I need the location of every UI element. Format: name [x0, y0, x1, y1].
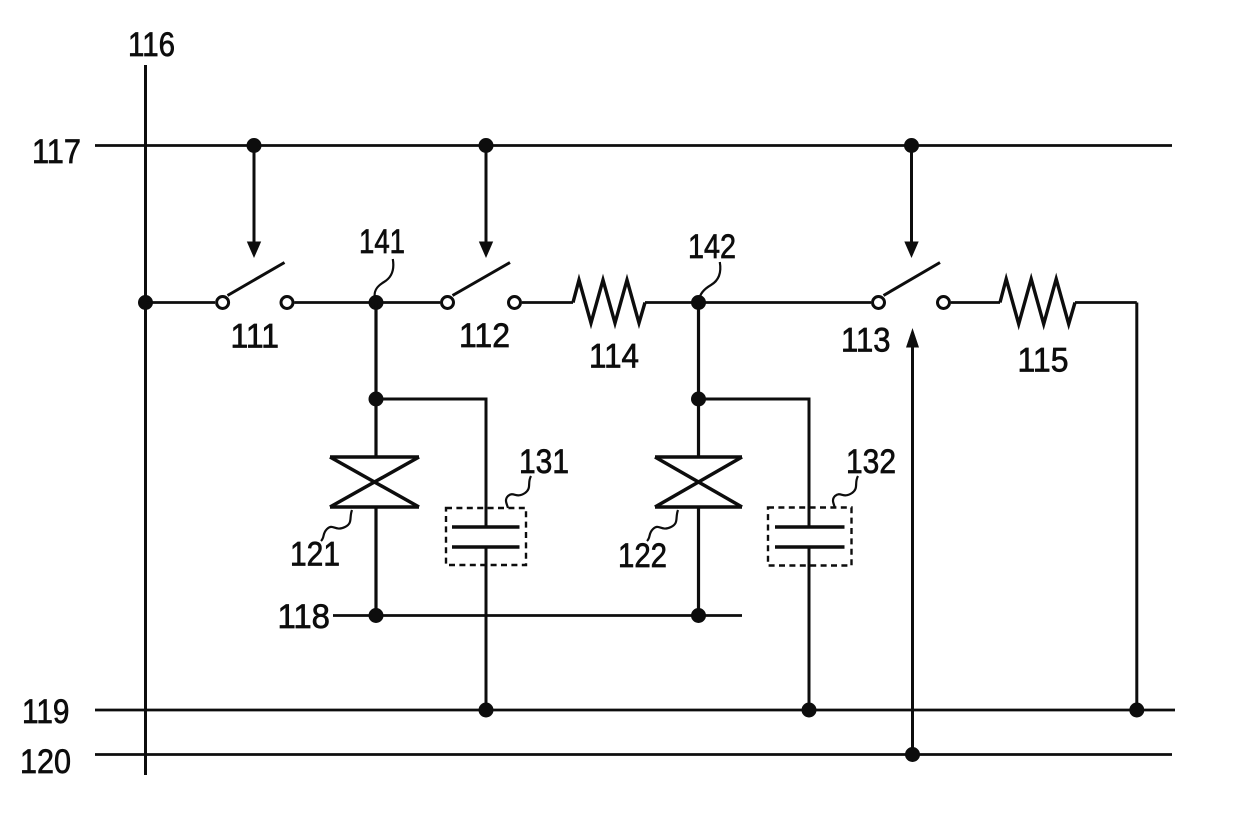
svg-text:121: 121	[290, 536, 340, 574]
junction dot 120 at up-arrow line	[905, 747, 920, 762]
svg-text:114: 114	[589, 338, 639, 376]
stem element 121 down to line 118	[374, 507, 377, 616]
node 142 leader line	[699, 262, 720, 300]
wire 116 vertical line	[144, 65, 147, 775]
junction dot 119 at right vertical	[1129, 703, 1144, 718]
wire 117 horizontal line	[95, 144, 1172, 147]
svg-text:120: 120	[20, 743, 71, 781]
capacitor 131 lower wire to line 119	[485, 547, 488, 710]
svg-text:141: 141	[359, 223, 405, 261]
switch 111	[217, 263, 293, 309]
wire 119 horizontal line	[95, 709, 1175, 712]
svg-text:116: 116	[128, 26, 175, 64]
svg-text:142: 142	[688, 228, 736, 266]
wire resistor 115 to right corner	[1075, 301, 1137, 304]
stem node 142 down to element 122	[697, 303, 700, 458]
switch 112	[442, 263, 521, 309]
node 141 leader line	[375, 259, 394, 297]
junction dot 119 at capacitor 132	[802, 703, 817, 718]
capacitor 131	[452, 527, 520, 547]
capacitor 132 dashed box	[768, 508, 852, 566]
svg-text:117: 117	[32, 133, 81, 171]
arrow from 117 down to switch 111	[247, 146, 261, 259]
junction dot 118 right	[691, 608, 706, 623]
element 122 squiggle leader	[647, 510, 678, 541]
memory element 122 (hourglass)	[655, 457, 742, 507]
capacitor 131 dashed box	[446, 508, 526, 565]
wire switch 113 to resistor 115	[951, 301, 1000, 304]
svg-text:118: 118	[278, 598, 331, 636]
svg-text:112: 112	[459, 317, 510, 355]
junction dot on 117 at x=254	[247, 138, 262, 153]
wire switch 112 to resistor 114	[522, 301, 573, 304]
svg-text:119: 119	[22, 693, 70, 731]
node 141 junction dot	[369, 295, 384, 310]
resistor 115	[1000, 279, 1075, 324]
element 121 squiggle leader	[321, 510, 352, 541]
capacitor 131 squiggle leader	[506, 476, 531, 508]
junction dot middle wire on line 116	[138, 295, 153, 310]
branch wire to capacitor 132	[699, 399, 810, 527]
svg-text:115: 115	[1018, 342, 1069, 380]
svg-text:131: 131	[519, 443, 569, 481]
junction dot 118 left	[369, 608, 384, 623]
wire 118 horizontal line	[333, 614, 742, 617]
stem node 141 down to element 121	[374, 303, 377, 458]
junction dot 119 at capacitor 131	[479, 703, 494, 718]
branch node dot at (698.5,399)	[691, 392, 706, 407]
wire 120 horizontal line	[95, 753, 1172, 756]
memory element 121 (hourglass)	[330, 457, 419, 507]
wire switch 111 to switch 112	[295, 301, 441, 304]
capacitor 132	[775, 527, 845, 547]
svg-text:113: 113	[841, 322, 891, 360]
branch node dot at (376,399)	[369, 392, 384, 407]
capacitor 132 lower wire to line 119	[808, 547, 811, 710]
wire resistor 114 to switch 113	[645, 301, 871, 304]
capacitor 132 squiggle leader	[833, 476, 858, 508]
branch wire to capacitor 131	[376, 399, 486, 527]
arrow from 117 down to switch 112	[479, 146, 493, 259]
up arrow at x=912.5	[906, 328, 919, 755]
svg-text:122: 122	[618, 537, 667, 575]
svg-text:111: 111	[231, 318, 280, 356]
arrow from 117 down to switch 113	[904, 146, 918, 259]
wire right vertical down to line 119	[1135, 303, 1138, 711]
stem element 122 down to line 118	[697, 507, 700, 616]
switch 113	[873, 263, 950, 309]
svg-text:132: 132	[846, 443, 896, 481]
wire 116 to switch 111	[146, 301, 216, 304]
junction dot on 117 at x=486	[479, 138, 494, 153]
junction dot on 117 at x=911.5	[904, 138, 919, 153]
node 142 junction dot	[691, 295, 706, 310]
resistor 114	[573, 280, 645, 323]
